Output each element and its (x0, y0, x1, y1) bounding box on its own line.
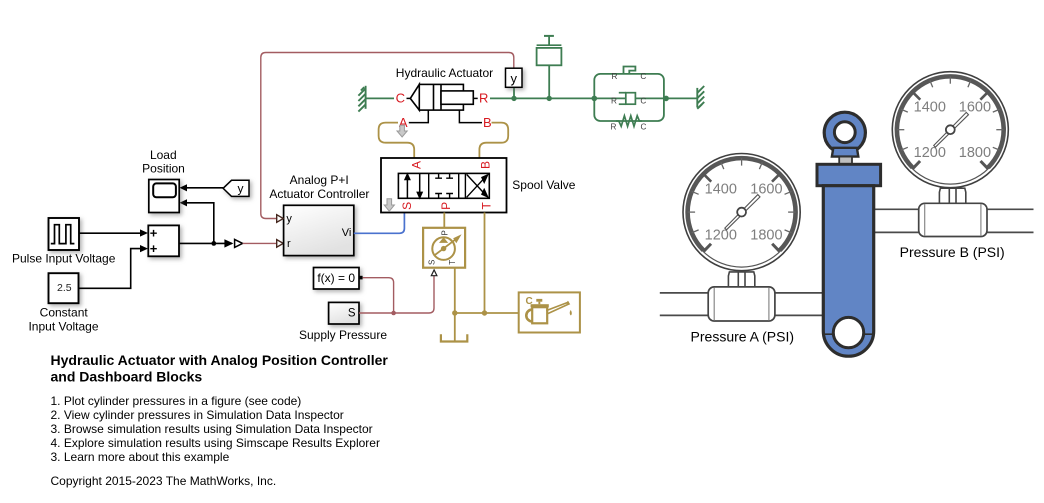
valve arrow up (406, 179, 408, 199)
junction node at mass (547, 96, 552, 101)
spring symbol (616, 116, 642, 127)
svg-text:B: B (483, 115, 492, 130)
svg-text:R: R (611, 97, 617, 106)
junction node network left (592, 96, 598, 102)
svg-text:Supply Pressure: Supply Pressure (299, 328, 387, 342)
block Pulse Input Voltage (49, 218, 80, 250)
svg-text:P: P (439, 202, 453, 210)
svg-text:Vi: Vi (342, 227, 352, 239)
hard stop symbol (624, 67, 636, 74)
block Sum (148, 225, 179, 256)
tank symbol (454, 313, 456, 342)
wire mass to main line (green) (548, 65, 550, 98)
arrowhead scope input 1 (180, 184, 188, 191)
wire f(x) to supply node (dark red) (363, 278, 394, 313)
wire source T to tank node (tan) (454, 268, 456, 313)
block hydraulic fluid (519, 292, 580, 332)
valve gray flow arrow (384, 199, 394, 211)
svg-text:Load: Load (150, 148, 177, 162)
junction supply node (391, 311, 396, 316)
cylinder neck (839, 157, 852, 165)
wire y box to main line (green) (513, 87, 515, 98)
cylinder bottom hole (833, 317, 863, 347)
svg-text:A: A (410, 161, 424, 169)
svg-text:Actuator Controller: Actuator Controller (269, 187, 369, 201)
cylinder cap (817, 164, 881, 185)
svg-text:1600: 1600 (750, 182, 782, 198)
svg-text:3. Learn more about this examp: 3. Learn more about this example (51, 450, 230, 464)
wire C label to cone (407, 97, 411, 99)
svg-text:Copyright 2015-2023 The MathWo: Copyright 2015-2023 The MathWorks, Inc. (51, 474, 277, 488)
svg-text:f(x) = 0: f(x) = 0 (317, 271, 355, 285)
block y position sensor (506, 68, 523, 87)
wire from y tag to scope (186, 187, 223, 189)
port nub f(x) (359, 276, 363, 280)
arrowhead hollow y port (277, 215, 284, 223)
wire actuator A to valve A (tan) (379, 123, 415, 158)
svg-text:T: T (479, 201, 493, 209)
block Solver f(x)=0 (314, 268, 360, 290)
gray flow arrow below A (397, 125, 407, 137)
junction node tank (452, 310, 457, 315)
svg-text:S: S (348, 308, 356, 320)
cylinder collar (832, 148, 858, 157)
cylinder ring eye (824, 112, 865, 153)
svg-text:S: S (400, 202, 414, 210)
wire tank node horizontal (tan) (455, 312, 519, 314)
actuator cylinder icon (410, 84, 473, 110)
wire constant to sum (79, 249, 140, 289)
node From tag y (223, 180, 249, 196)
svg-text:and Dashboard Blocks: and Dashboard Blocks (51, 369, 203, 385)
svg-text:1400: 1400 (705, 182, 737, 198)
gauge A fitting (708, 287, 775, 321)
gauge B (892, 72, 1008, 188)
svg-text:1400: 1400 (914, 99, 946, 115)
pipe A (660, 293, 824, 316)
wire sum output (179, 242, 232, 244)
valve crossed arrows X (467, 178, 485, 197)
wire scope input 2 from junction (186, 203, 214, 244)
svg-text:Pulse Input Voltage: Pulse Input Voltage (12, 251, 116, 265)
svg-text:4. Explore simulation results: 4. Explore simulation results using Sims… (51, 436, 380, 450)
block Load Position scope (149, 180, 179, 213)
svg-text:P: P (441, 230, 450, 235)
svg-text:Constant: Constant (40, 305, 89, 319)
damper symbol (626, 93, 636, 105)
svg-text:1800: 1800 (959, 145, 991, 161)
svg-text:C: C (640, 97, 646, 106)
svg-text:2.5: 2.5 (57, 282, 72, 294)
svg-text:Input Voltage: Input Voltage (28, 320, 98, 334)
svg-text:1600: 1600 (959, 99, 991, 115)
block pressure source (423, 228, 465, 268)
svg-text:Position: Position (142, 161, 185, 175)
cylinder body (823, 186, 873, 357)
svg-text:1800: 1800 (750, 228, 782, 244)
wire S to pressure source (dark red) (359, 276, 434, 313)
svg-text:C: C (641, 123, 647, 132)
svg-text:y: y (238, 182, 244, 196)
wire R to wall right (green main line) (490, 97, 697, 99)
wire pulse to sum (79, 232, 141, 234)
svg-text:r: r (287, 238, 291, 250)
valve icon envelopes (398, 173, 489, 198)
svg-text:2. View cylinder pressures in: 2. View cylinder pressures in Simulation… (51, 408, 344, 422)
block S PS converter (329, 302, 359, 324)
wire wall to actuator C (green) (366, 97, 394, 99)
svg-text:1200: 1200 (705, 228, 737, 244)
wire rod to R label (473, 97, 477, 99)
svg-text:Hydraulic Actuator with Analog: Hydraulic Actuator with Analog Position … (51, 352, 389, 368)
wire Vi to valve S (blue) (354, 213, 405, 234)
arrowhead hollow domain crossing (235, 239, 243, 247)
svg-text:Spool Valve: Spool Valve (512, 178, 575, 192)
valve arrow down (419, 173, 421, 193)
svg-text:Analog P+I: Analog P+I (290, 173, 349, 187)
wire valve P to source (tan) (443, 213, 445, 228)
svg-text:S: S (428, 260, 437, 265)
svg-text:3. Browse simulation results u: 3. Browse simulation results using Simul… (51, 422, 373, 436)
wire actuator B to valve B (tan) (479, 123, 508, 158)
svg-text:B: B (478, 161, 492, 169)
svg-text:y: y (286, 213, 292, 225)
junction node at y sensor (511, 96, 516, 101)
gauge B fitting (919, 203, 987, 236)
block Spool Valve (381, 158, 507, 213)
svg-text:C: C (396, 91, 405, 106)
junction node valve T line (482, 310, 487, 315)
svg-text:C: C (640, 72, 646, 81)
arrowhead filled sum output (224, 239, 233, 247)
block Analog P+I Actuator Controller (284, 205, 354, 255)
cylinder seam (824, 333, 874, 335)
block Constant Input Voltage 2.5 (49, 273, 79, 303)
svg-text:1. Plot cylinder pressures in: 1. Plot cylinder pressures in a figure (… (51, 394, 302, 408)
svg-text:y: y (511, 71, 518, 86)
network bracket (594, 74, 664, 121)
junction sum output node (211, 241, 216, 246)
arrowhead hollow r port (277, 240, 284, 248)
pipe B (874, 209, 1034, 232)
actuator port B stub (459, 110, 482, 123)
wire r reference (dark red) (243, 242, 277, 244)
svg-text:T: T (448, 260, 457, 265)
svg-text:Pressure B (PSI): Pressure B (PSI) (900, 244, 1005, 260)
wire valve T down (tan) (484, 213, 486, 314)
svg-text:1200: 1200 (914, 145, 946, 161)
mass block (537, 36, 562, 65)
svg-text:R: R (479, 91, 488, 106)
valve closed center T symbols (435, 173, 453, 198)
wire y measurement loop (dark red) (261, 53, 514, 219)
gauge A nut (728, 272, 754, 287)
wall left (mechanical reference) (358, 86, 365, 112)
gauge A (683, 154, 800, 271)
svg-text:R: R (611, 123, 617, 132)
actuator port A stub (409, 110, 429, 123)
svg-text:Pressure A (PSI): Pressure A (PSI) (691, 328, 794, 344)
svg-text:+: + (150, 241, 158, 256)
gauge B nut (939, 188, 965, 203)
svg-text:Hydraulic Actuator: Hydraulic Actuator (396, 66, 493, 80)
port triangle pressure source S (431, 270, 437, 276)
svg-text:R: R (612, 72, 618, 81)
wall right (mechanical reference) (697, 86, 704, 109)
junction node network right (663, 96, 669, 102)
svg-text:+: + (150, 225, 158, 240)
